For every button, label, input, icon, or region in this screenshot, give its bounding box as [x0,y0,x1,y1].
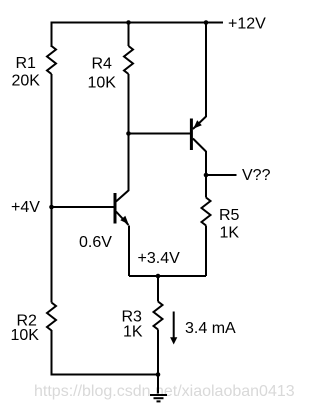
node: V?? junction dot [204,173,209,178]
svg-text:R4: R4 [92,56,113,73]
svg-text:10K: 10K [88,75,117,92]
wire: Q2 base wire [129,133,191,135]
wire: R5 bottom to +3.4V rail [205,226,207,277]
wire: R2 bottom to ground junction (bottom rail) [52,330,159,375]
resistor R1 [47,46,56,74]
node: junction dot at R4 top on +12V rail [126,20,131,25]
transistor Q2 (PNP) [191,117,206,152]
node: junction dot Q2 base / Q1 collector [126,131,131,136]
svg-text:3.4 mA: 3.4 mA [185,320,236,337]
resistor R2 [47,303,56,331]
svg-text:0.6V: 0.6V [79,234,112,251]
resistor R3 [154,302,163,330]
wire: Q2 collector down to V?? node [205,151,207,175]
svg-text:V??: V?? [242,167,271,184]
svg-text:https://blog.csdn.net/xiaolaob: https://blog.csdn.net/xiaolaoban0413 [34,383,295,400]
node: +4V junction dot [49,205,54,210]
svg-text:R1: R1 [16,55,37,72]
wire: R3 top lead [157,276,159,302]
node: junction dot at ground rail [156,372,161,377]
transistor Q1 (NPN) [115,190,129,225]
svg-text:1K: 1K [123,324,143,341]
wire: +3.4V rail (Q1 emitter to R5 bottom) [129,275,206,277]
wire: V?? node down to R5 [205,175,207,198]
svg-text:10K: 10K [11,327,40,344]
wire: V?? stub [206,174,237,176]
wire: node down to Q1 collector [128,134,130,191]
wire: Q1 emitter down to +3.4V rail [128,226,130,277]
wire: top +12V rail with left corner down to R1 [52,23,224,48]
node: +3.4V junction dot [156,274,161,279]
node: junction dot at Q2 emitter on +12V rail [204,20,209,25]
wire: R3 bottom to ground [157,330,159,394]
svg-text:20K: 20K [12,73,41,90]
resistor R4 [124,46,133,74]
current arrow: 3.4 mA through R3 [170,312,177,345]
svg-text:+3.4V: +3.4V [138,250,181,267]
svg-text:+4V: +4V [11,199,40,216]
svg-text:R5: R5 [219,207,240,224]
svg-text:1K: 1K [220,225,240,242]
wire: left branch from R1 bottom through +4V node to R2 top [51,74,53,303]
ground symbol [150,395,167,401]
wire: R4 top lead from +12V rail [128,23,130,47]
wire: R4 bottom to Q2 base node [128,74,130,134]
resistor R5 [202,198,211,226]
wire: Q1 base wire from +4V node [52,206,114,208]
wire: Q2 emitter up to +12V rail [205,23,207,118]
svg-text:+12V: +12V [228,16,266,33]
